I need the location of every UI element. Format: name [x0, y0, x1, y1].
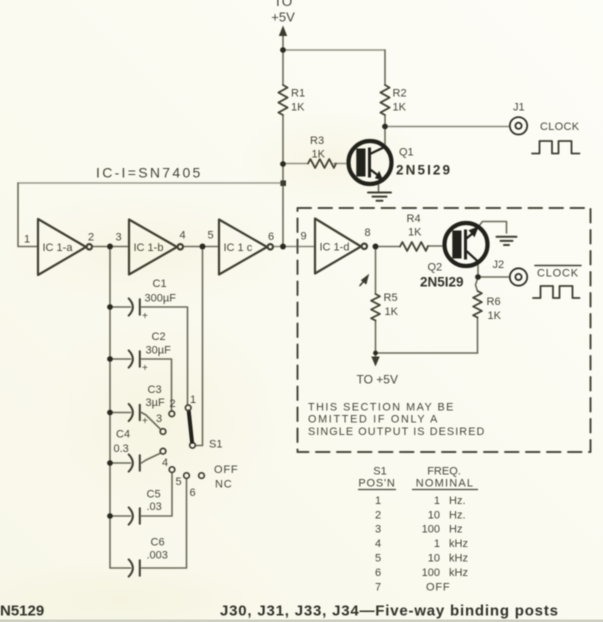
switch S1 wiper arm	[189, 412, 192, 442]
wire IC1-a output to IC1-b input	[92, 246, 129, 248]
svg-text:7: 7	[375, 582, 381, 594]
wire C3 right lead to contact 3	[142, 413, 161, 430]
svg-text:6: 6	[375, 567, 381, 579]
svg-text:C1: C1	[153, 278, 167, 290]
wire Q2 collector down to J2 node	[477, 262, 479, 278]
svg-text:1: 1	[24, 234, 30, 246]
wire +5V stem to top junction	[282, 34, 284, 50]
arrow to +5V (top)	[279, 26, 287, 37]
wire R2 bottom to J1 node	[384, 115, 386, 127]
wire C4 left lead	[110, 462, 131, 464]
node: Q2 collector / J2 junction	[475, 274, 481, 280]
svg-text:300µF: 300µF	[145, 293, 177, 305]
wire J1 node to jack J1	[385, 126, 510, 128]
table header underlines	[358, 489, 478, 491]
wire C1 left lead	[110, 306, 131, 308]
node: feedback junction	[280, 180, 286, 186]
dashed optional-section box	[298, 208, 591, 452]
switch S1 contact 5	[169, 467, 175, 473]
svg-text:6: 6	[190, 487, 196, 499]
wire node 8 down to R5 top	[375, 247, 377, 295]
capacitor C6	[129, 559, 140, 576]
svg-text:TO +5V: TO +5V	[357, 373, 398, 387]
svg-text:C6: C6	[151, 537, 165, 549]
wire feedback horizontal to left	[18, 182, 283, 184]
wire bottom rail R5 to R6	[376, 352, 478, 354]
wire C2 right lead to contact 2	[142, 359, 172, 411]
wire C5 right lead to contact 5	[142, 473, 173, 516]
svg-text:R6: R6	[487, 296, 501, 308]
svg-text:R2: R2	[393, 88, 407, 100]
svg-text:kHz: kHz	[449, 538, 468, 550]
wire C3 left lead	[110, 412, 131, 414]
svg-text:3: 3	[116, 232, 122, 244]
ground (Q2 emitter)	[497, 237, 517, 245]
svg-text:+5V: +5V	[271, 10, 295, 25]
svg-text:CLOCK: CLOCK	[540, 121, 580, 133]
wire TO +5V arrow stem	[375, 353, 377, 361]
svg-text:S1: S1	[373, 466, 386, 478]
node: C3 tap on bus	[107, 410, 113, 416]
node: R1 / R3 junction	[280, 161, 286, 167]
svg-text:8: 8	[365, 227, 371, 239]
svg-text:Q1: Q1	[399, 147, 414, 159]
svg-text:5: 5	[375, 553, 381, 565]
wire C1 right lead to contact 1	[142, 307, 188, 405]
connector J1	[510, 117, 527, 134]
wire Q1 emitter to ground	[378, 183, 380, 192]
capacitor C4	[129, 454, 140, 471]
svg-text:10: 10	[428, 553, 440, 565]
arrow TO +5V (bottom, pointing down)	[371, 357, 379, 367]
svg-text:IC 1-d: IC 1-d	[320, 242, 350, 254]
svg-text:.003: .003	[147, 550, 168, 562]
resistor R6	[473, 291, 482, 317]
wire R1 bottom to R3 node	[282, 115, 284, 164]
ground (Q1 emitter)	[368, 193, 391, 201]
svg-text:S1: S1	[209, 439, 222, 451]
svg-text:J30, J31, J33, J34—Five-way bi: J30, J31, J33, J34—Five-way binding post…	[220, 603, 559, 620]
svg-text:SINGLE OUTPUT IS DESIRED: SINGLE OUTPUT IS DESIRED	[308, 426, 485, 438]
svg-text:3: 3	[156, 413, 162, 425]
wire C4 right lead to contact 4	[142, 453, 161, 463]
resistor R2	[380, 85, 389, 115]
svg-text:FREQ.: FREQ.	[427, 466, 461, 478]
svg-text:1: 1	[375, 495, 381, 507]
svg-text:OFF: OFF	[426, 582, 450, 594]
svg-text:2: 2	[170, 398, 176, 410]
svg-text:Hz: Hz	[449, 524, 462, 536]
svg-text:.03: .03	[147, 501, 162, 513]
svg-text:6: 6	[268, 231, 274, 243]
svg-text:1: 1	[434, 495, 440, 507]
wire +5V junction down to R1 top	[282, 50, 284, 85]
svg-text:4: 4	[180, 230, 186, 242]
svg-text:CLOCK: CLOCK	[537, 268, 579, 280]
wire R5 bottom to +5V return rail	[375, 320, 377, 353]
node: bottom +5V return corner	[373, 351, 378, 356]
wire J1 node down to Q1 collector	[384, 127, 386, 148]
svg-text:2: 2	[375, 510, 381, 522]
switch S1 contact 2	[169, 411, 175, 417]
svg-text:R5: R5	[384, 292, 398, 304]
node: C5 tap on bus	[107, 513, 113, 519]
svg-text:NC: NC	[215, 479, 233, 491]
capacitor C3	[129, 404, 140, 421]
svg-text:C4: C4	[116, 429, 130, 441]
wire R3 node down to feedback node	[282, 164, 284, 183]
svg-text:THIS SECTION MAY BE: THIS SECTION MAY BE	[308, 402, 455, 414]
svg-text:2N5I29: 2N5I29	[420, 275, 464, 290]
capacitor C2	[129, 350, 140, 367]
svg-text:1K: 1K	[408, 227, 422, 239]
node: C2 tap on bus	[107, 356, 113, 362]
op-amp/inverter IC 1-d	[315, 219, 367, 274]
wire R6 bottom to +5V return rail	[477, 317, 479, 353]
node: pin4-pin5 junction	[200, 244, 206, 250]
svg-text:Hz.: Hz.	[449, 510, 466, 522]
node: pin2-pin3 junction	[107, 244, 113, 250]
svg-text:1: 1	[434, 538, 440, 550]
switch S1 contact 6	[184, 473, 190, 479]
transistor Q1	[349, 141, 392, 184]
svg-text:R4: R4	[407, 213, 421, 225]
wire feedback left drop to pin 1	[18, 183, 38, 247]
svg-text:J2: J2	[493, 259, 505, 271]
svg-text:4: 4	[375, 538, 381, 550]
svg-text:3µF: 3µF	[146, 397, 165, 409]
svg-text:J1: J1	[513, 102, 525, 114]
svg-text:OMITTED IF ONLY A: OMITTED IF ONLY A	[308, 414, 439, 426]
node: C1 tap on bus	[107, 304, 113, 310]
svg-text:+: +	[142, 363, 148, 374]
svg-text:Hz.: Hz.	[449, 495, 466, 507]
arrow pointer at node 8	[361, 274, 369, 285]
svg-text:1K: 1K	[312, 149, 326, 161]
svg-text:+: +	[142, 416, 148, 427]
svg-text:1K: 1K	[488, 310, 502, 322]
svg-text:IC 1 c: IC 1 c	[224, 242, 253, 254]
transistor Q2	[445, 223, 488, 266]
switch S1 contact 3	[160, 429, 166, 435]
wire IC1-c output to IC1-d input (pin 6 to pin 9)	[274, 246, 316, 248]
wire C6 right lead to contact 6	[142, 479, 187, 568]
svg-text:30µF: 30µF	[146, 345, 172, 357]
clock waveform at J1	[532, 141, 580, 154]
wire IC1-b output to IC1-c input	[184, 246, 219, 248]
svg-text:IC 1-a: IC 1-a	[43, 242, 74, 254]
switch S1 contact 1	[185, 405, 191, 411]
node: R2 / J1 / Q1 collector junction	[382, 124, 388, 130]
op-amp/inverter IC 1-c	[219, 220, 273, 275]
wire R3 right lead to Q1 base	[334, 163, 349, 165]
wire R2 top from +5V rail	[384, 50, 386, 85]
resistor R1	[278, 85, 287, 115]
svg-text:OFF: OFF	[214, 464, 238, 476]
switch S1 contact 4	[160, 448, 166, 454]
svg-text:1: 1	[190, 394, 196, 406]
wire C2 left lead	[110, 358, 131, 360]
wire R4 right lead to Q2 base	[428, 245, 445, 247]
svg-text:100: 100	[422, 567, 440, 579]
svg-text:Q2: Q2	[428, 262, 443, 274]
wire top horizontal +5V rail to R2	[283, 49, 385, 51]
svg-text:NOMINAL: NOMINAL	[416, 478, 475, 490]
wire R3 node to R3 left lead	[283, 163, 308, 165]
wire feedback node down to pin6 node	[282, 183, 284, 247]
svg-text:9: 9	[301, 231, 307, 243]
svg-text:2N5I29: 2N5I29	[396, 163, 452, 178]
svg-text:IC-I=SN7405: IC-I=SN7405	[96, 165, 203, 181]
svg-text:IC 1-b: IC 1-b	[134, 242, 164, 254]
resistor R4	[400, 242, 428, 251]
connector J2	[510, 268, 527, 285]
node: pin6 junction	[280, 244, 286, 250]
wire pin2 node down capacitor bus	[110, 247, 131, 569]
svg-text:kHz: kHz	[449, 567, 468, 579]
svg-text:C5: C5	[147, 489, 161, 501]
op-amp/inverter IC 1-b	[129, 220, 183, 275]
wire node 8 to R4 left lead	[376, 246, 401, 248]
svg-text:N5129: N5129	[0, 603, 44, 620]
wire J2 node to jack J2	[478, 276, 510, 278]
resistor R3	[308, 159, 336, 168]
wire Q2 emitter to ground (top right)	[479, 222, 507, 234]
node: C4 tap on bus	[107, 460, 113, 466]
svg-text:1K: 1K	[291, 102, 305, 114]
overline for J2 CLOCK label	[535, 265, 581, 267]
node: pin8 junction	[373, 244, 379, 250]
svg-text:10: 10	[428, 510, 440, 522]
svg-text:5: 5	[176, 476, 182, 488]
svg-text:C3: C3	[148, 384, 162, 396]
svg-text:0.3: 0.3	[114, 443, 129, 455]
svg-text:+: +	[142, 311, 148, 322]
node: +5V top junction	[280, 47, 286, 53]
switch S1 contact 7 (OFF)	[199, 473, 205, 479]
svg-text:4: 4	[162, 457, 168, 469]
wire J2 node down to R6 top	[476, 277, 479, 291]
svg-text:R3: R3	[310, 135, 324, 147]
bottom page edge line	[0, 620, 603, 622]
capacitor C5	[129, 507, 140, 524]
svg-text:R1: R1	[291, 88, 305, 100]
wire pin4 node down to S1 pole	[195, 247, 202, 446]
svg-text:kHz: kHz	[449, 553, 468, 565]
svg-text:C2: C2	[152, 331, 166, 343]
svg-text:3: 3	[375, 524, 381, 536]
capacitor C1	[129, 298, 140, 315]
svg-text:1K: 1K	[393, 102, 407, 114]
switch S1 pole	[190, 443, 196, 449]
svg-text:5: 5	[208, 230, 214, 242]
resistor R5	[371, 294, 380, 320]
svg-text:TO: TO	[274, 0, 293, 9]
clock waveform at J2	[533, 286, 580, 298]
op-amp/inverter IC 1-a	[38, 219, 92, 275]
svg-text:100: 100	[422, 524, 440, 536]
svg-text:1K: 1K	[385, 306, 399, 318]
wire C5 left lead	[110, 515, 131, 517]
svg-text:POS'N: POS'N	[358, 478, 395, 490]
svg-text:2: 2	[88, 232, 94, 244]
